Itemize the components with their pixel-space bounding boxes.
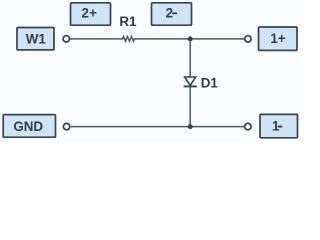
svg-text:W1: W1 bbox=[26, 31, 47, 46]
svg-text:2: 2 bbox=[166, 5, 173, 20]
svg-text:D1: D1 bbox=[201, 75, 219, 90]
svg-text:2+: 2+ bbox=[82, 5, 97, 20]
svg-text:GND: GND bbox=[13, 119, 43, 134]
svg-text:R1: R1 bbox=[119, 14, 137, 29]
svg-text:1+: 1+ bbox=[270, 31, 285, 46]
